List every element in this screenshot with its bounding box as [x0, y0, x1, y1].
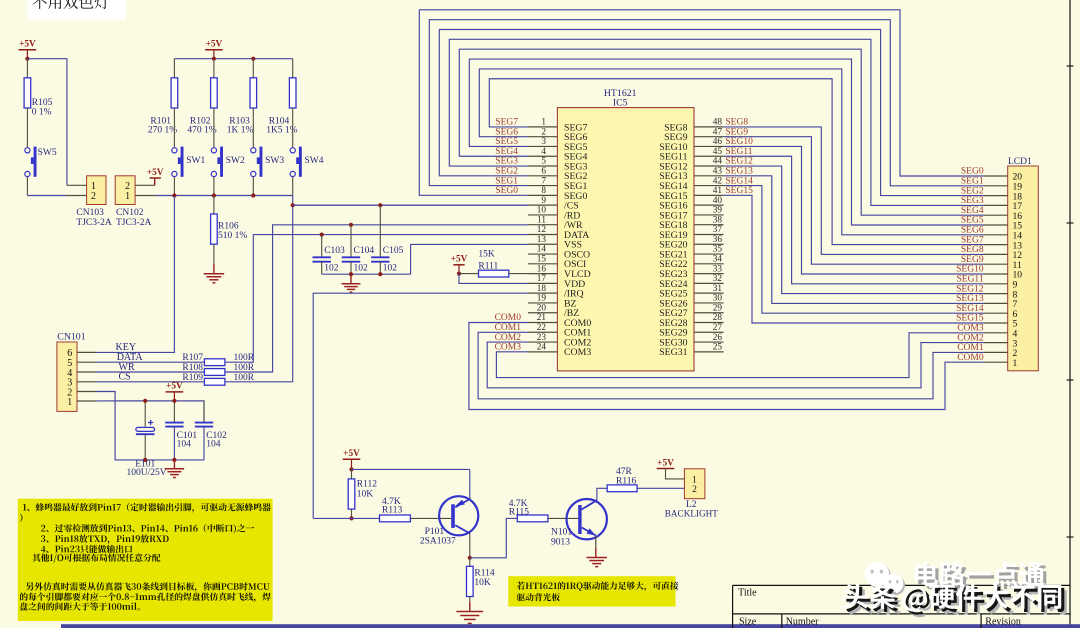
svg-text:10K: 10K — [474, 578, 491, 588]
svg-text:12: 12 — [537, 225, 547, 235]
svg-text:SEG13: SEG13 — [956, 294, 984, 304]
svg-text:TJC3-2A: TJC3-2A — [116, 218, 152, 228]
svg-text:COM1: COM1 — [495, 323, 522, 333]
svg-text:C104: C104 — [354, 246, 375, 256]
svg-text:21: 21 — [537, 313, 547, 323]
svg-text:+5V: +5V — [19, 40, 36, 50]
svg-text:COM3: COM3 — [495, 343, 522, 353]
svg-text:Size: Size — [739, 617, 757, 628]
svg-text:46: 46 — [713, 137, 723, 147]
svg-text:IC5: IC5 — [613, 98, 628, 109]
svg-text:+5V: +5V — [451, 255, 468, 265]
svg-text:17: 17 — [537, 274, 547, 284]
svg-text:SEG12: SEG12 — [725, 157, 753, 167]
svg-text:R108: R108 — [182, 363, 203, 373]
svg-text:0 1%: 0 1% — [32, 108, 52, 118]
svg-text:SEG9: SEG9 — [725, 127, 748, 137]
svg-text:100U/25V: 100U/25V — [127, 468, 167, 478]
svg-text:104: 104 — [177, 440, 192, 450]
svg-text:42: 42 — [713, 176, 723, 186]
svg-text:40: 40 — [713, 196, 723, 206]
svg-text:47: 47 — [713, 127, 723, 137]
svg-text:1: 1 — [692, 475, 697, 485]
svg-text:Number: Number — [786, 617, 819, 628]
svg-text:CN101: CN101 — [57, 331, 85, 342]
svg-text:10: 10 — [537, 206, 547, 216]
svg-text:20: 20 — [537, 303, 547, 313]
svg-text:2SA1037: 2SA1037 — [420, 536, 456, 546]
svg-text:29: 29 — [713, 303, 723, 313]
svg-text:SW4: SW4 — [305, 156, 324, 166]
svg-text:36: 36 — [713, 235, 723, 245]
svg-text:SEG6: SEG6 — [495, 127, 518, 137]
svg-text:P101: P101 — [425, 527, 445, 537]
svg-text:30: 30 — [713, 294, 723, 304]
svg-text:+5V: +5V — [206, 40, 223, 50]
svg-text:7: 7 — [541, 176, 546, 186]
svg-text:44: 44 — [713, 157, 723, 167]
svg-text:2: 2 — [692, 485, 697, 495]
svg-text:R112: R112 — [357, 480, 377, 490]
svg-text:11: 11 — [537, 215, 546, 225]
svg-text:16: 16 — [537, 264, 547, 274]
svg-text:COM2: COM2 — [957, 333, 984, 343]
svg-text:SEG14: SEG14 — [725, 176, 753, 186]
svg-text:COM1: COM1 — [957, 343, 984, 353]
svg-text:470 1%: 470 1% — [187, 126, 216, 136]
svg-text:510 1%: 510 1% — [218, 231, 247, 241]
svg-text:SEG9: SEG9 — [961, 255, 984, 265]
svg-text:9013: 9013 — [551, 537, 570, 547]
svg-text:1: 1 — [67, 397, 72, 408]
svg-text:102: 102 — [383, 263, 398, 273]
svg-text:SEG15: SEG15 — [725, 186, 753, 196]
svg-text:6: 6 — [541, 167, 546, 177]
svg-text:SEG8: SEG8 — [961, 245, 984, 255]
svg-text:COM0: COM0 — [957, 353, 984, 363]
svg-text:+5V: +5V — [343, 449, 360, 459]
svg-text:2: 2 — [91, 191, 96, 202]
svg-text:COM3: COM3 — [564, 347, 591, 358]
svg-text:+5V: +5V — [147, 168, 164, 178]
svg-text:R113: R113 — [382, 505, 402, 515]
svg-text:SEG2: SEG2 — [961, 186, 984, 196]
svg-text:COM0: COM0 — [495, 313, 522, 323]
svg-text:22: 22 — [537, 323, 547, 333]
svg-text:R116: R116 — [616, 476, 636, 486]
svg-text:104: 104 — [206, 440, 221, 450]
svg-text:SEG7: SEG7 — [961, 235, 984, 245]
svg-text:102: 102 — [324, 263, 339, 273]
svg-text:47R: 47R — [616, 467, 633, 477]
svg-text:SEG1: SEG1 — [961, 177, 984, 187]
svg-text:SW5: SW5 — [38, 148, 57, 158]
svg-text:SEG4: SEG4 — [961, 206, 984, 216]
svg-text:15: 15 — [537, 255, 547, 265]
svg-text:SEG31: SEG31 — [659, 347, 687, 358]
svg-text:+5V: +5V — [657, 458, 674, 468]
svg-text:3: 3 — [541, 137, 546, 147]
svg-text:R114: R114 — [474, 568, 494, 578]
svg-text:35: 35 — [713, 245, 723, 255]
svg-text:SEG8: SEG8 — [725, 118, 748, 128]
svg-text:32: 32 — [713, 274, 723, 284]
svg-text:24: 24 — [537, 343, 547, 353]
svg-text:5: 5 — [541, 157, 546, 167]
svg-text:33: 33 — [713, 264, 723, 274]
svg-text:SEG12: SEG12 — [956, 284, 984, 294]
svg-text:15K: 15K — [478, 250, 495, 260]
svg-text:SEG2: SEG2 — [495, 167, 518, 177]
svg-text:SEG0: SEG0 — [961, 167, 984, 177]
svg-text:R107: R107 — [182, 353, 203, 363]
svg-text:SEG0: SEG0 — [495, 186, 518, 196]
svg-text:Revision: Revision — [985, 617, 1021, 628]
svg-text:SEG1: SEG1 — [495, 176, 518, 186]
svg-text:SW2: SW2 — [226, 156, 245, 166]
svg-text:14: 14 — [537, 245, 547, 255]
svg-text:1: 1 — [541, 118, 546, 128]
svg-text:Title: Title — [738, 588, 757, 599]
svg-text:SEG10: SEG10 — [725, 137, 753, 147]
svg-text:COM2: COM2 — [495, 333, 522, 343]
svg-text:SEG3: SEG3 — [961, 196, 984, 206]
svg-text:SEG15: SEG15 — [956, 314, 984, 324]
svg-text:SEG6: SEG6 — [961, 226, 984, 236]
svg-text:SW1: SW1 — [186, 156, 205, 166]
svg-text:CN103: CN103 — [76, 208, 104, 218]
svg-text:8: 8 — [541, 186, 546, 196]
svg-text:C103: C103 — [324, 246, 345, 256]
svg-text:SEG10: SEG10 — [956, 265, 984, 275]
svg-text:SEG11: SEG11 — [725, 147, 752, 157]
svg-text:SEG3: SEG3 — [495, 157, 518, 167]
svg-text:R111: R111 — [478, 261, 498, 271]
svg-text:LCD1: LCD1 — [1008, 157, 1032, 167]
svg-text:23: 23 — [537, 333, 547, 343]
svg-text:45: 45 — [713, 147, 723, 157]
svg-text:43: 43 — [713, 167, 723, 177]
svg-text:R115: R115 — [509, 508, 529, 518]
svg-text:SEG5: SEG5 — [495, 137, 518, 147]
svg-text:COM3: COM3 — [957, 324, 984, 334]
svg-text:SEG14: SEG14 — [956, 304, 984, 314]
svg-text:48: 48 — [713, 118, 723, 128]
svg-text:13: 13 — [537, 235, 547, 245]
svg-text:19: 19 — [537, 294, 547, 304]
svg-text:+5V: +5V — [166, 382, 183, 392]
svg-text:28: 28 — [713, 313, 723, 323]
svg-text:SW3: SW3 — [265, 156, 284, 166]
svg-text:27: 27 — [713, 323, 723, 333]
svg-text:37: 37 — [713, 225, 723, 235]
svg-text:1K 1%: 1K 1% — [227, 126, 254, 136]
svg-text:R109: R109 — [182, 373, 203, 383]
svg-text:SEG13: SEG13 — [725, 167, 753, 177]
svg-text:25: 25 — [713, 343, 723, 353]
svg-text:SEG7: SEG7 — [495, 118, 518, 128]
svg-text:41: 41 — [713, 186, 723, 196]
svg-text:4: 4 — [541, 147, 546, 157]
svg-text:CS: CS — [119, 372, 131, 383]
svg-text:9: 9 — [541, 196, 546, 206]
svg-text:1: 1 — [1013, 358, 1018, 369]
svg-text:CN102: CN102 — [116, 208, 144, 218]
svg-text:38: 38 — [713, 215, 723, 225]
svg-text:34: 34 — [713, 255, 723, 265]
svg-text:26: 26 — [713, 333, 723, 343]
svg-text:18: 18 — [537, 284, 547, 294]
svg-text:1: 1 — [125, 191, 130, 202]
svg-text:N101: N101 — [551, 528, 572, 538]
svg-text:SEG5: SEG5 — [961, 216, 984, 226]
svg-text:2: 2 — [541, 127, 546, 137]
svg-text:TJC3-2A: TJC3-2A — [76, 218, 112, 228]
svg-text:39: 39 — [713, 206, 723, 216]
svg-text:R106: R106 — [218, 222, 239, 232]
svg-text:SEG4: SEG4 — [495, 147, 518, 157]
svg-text:C105: C105 — [383, 246, 404, 256]
svg-text:31: 31 — [713, 284, 723, 294]
svg-text:10K: 10K — [357, 489, 374, 499]
svg-text:SEG11: SEG11 — [956, 275, 983, 285]
svg-text:102: 102 — [354, 263, 369, 273]
svg-text:270 1%: 270 1% — [148, 126, 177, 136]
svg-text:BACKLIGHT: BACKLIGHT — [665, 509, 718, 519]
